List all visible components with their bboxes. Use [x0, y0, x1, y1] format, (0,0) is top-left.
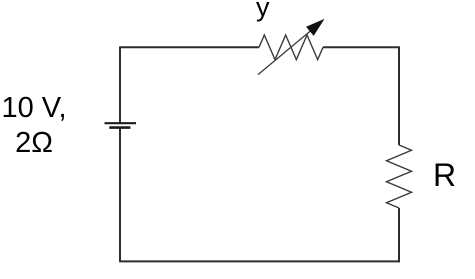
variable resistor y zigzag	[259, 35, 323, 60]
wire: left vertical above battery	[119, 46, 121, 123]
label: y	[256, 0, 270, 23]
wire: top-right horizontal segment	[323, 46, 399, 48]
label: R	[433, 157, 456, 194]
wire: right vertical below resistor R	[398, 208, 400, 262]
wire: bottom horizontal	[119, 260, 400, 262]
battery V1 short plate	[109, 126, 130, 129]
variable resistor y arrow shaft	[258, 29, 313, 74]
wire: left vertical below battery	[119, 128, 121, 262]
variable resistor y arrowhead	[307, 20, 323, 35]
wire: top-left horizontal segment	[120, 46, 259, 48]
wire: right vertical above resistor R	[398, 46, 400, 145]
label: source value 10 V,	[0, 91, 68, 160]
battery V1 long plate	[105, 122, 137, 124]
resistor R zigzag	[387, 145, 412, 208]
